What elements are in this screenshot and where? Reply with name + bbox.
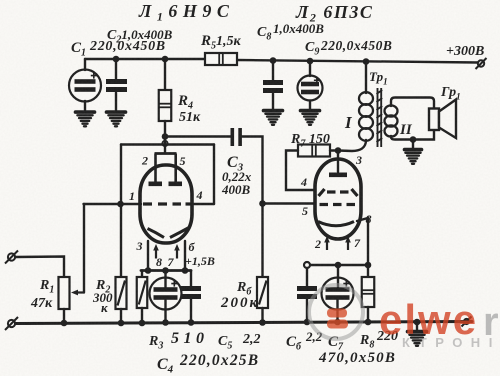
- ground below Tr1 secondary: [405, 150, 422, 164]
- node V2 grid junction: [259, 200, 266, 207]
- wire R2 bottom lead: [120, 309, 122, 323]
- wire C9 top lead: [309, 61, 311, 76]
- wire C1 bottom lead: [84, 101, 86, 111]
- node cathode bus left tie: [304, 262, 310, 268]
- ground chassis on bottom rail: [408, 332, 427, 346]
- resistor R5 1.5k: [205, 53, 237, 65]
- wire C9 bottom lead: [309, 101, 311, 110]
- wire C4 bottom lead: [164, 300, 166, 323]
- node rail-C7: [334, 319, 341, 326]
- speaker Gr1: [429, 100, 456, 139]
- ground below C1: [76, 112, 95, 126]
- resistor R4 51k: [159, 90, 172, 121]
- wire wire C3 to V2 grid node: [242, 137, 263, 204]
- wire R4 top lead: [164, 59, 166, 90]
- V2 control grid dashes pin5: [320, 203, 356, 206]
- node rail-C6: [304, 319, 311, 326]
- wire V1 pin4 wire: [192, 203, 214, 205]
- wire V1 grid tie box right: [213, 145, 215, 205]
- wire Tr1 primary bottom to V2 anode: [338, 140, 366, 151]
- wire Tr1 secondary top to speaker: [391, 98, 434, 110]
- resistor R3 510: [137, 277, 148, 308]
- V1 heater stubs pins 8,7: [153, 244, 180, 259]
- wire secondary ground lead: [412, 140, 414, 149]
- V2 screen grid dashes pin4: [319, 189, 358, 196]
- node bus-R8: [365, 262, 372, 269]
- node rail-C4: [162, 319, 169, 326]
- wire R7 to V2 pin4 screen wire: [286, 151, 315, 191]
- wire C5 top lead: [190, 271, 192, 287]
- wire V1 pin6 cathode lead: [184, 241, 186, 270]
- V1 grid dashes pins 1,4: [143, 202, 191, 205]
- resistor R1 47k: [59, 277, 70, 309]
- wire R6 top lead: [261, 204, 263, 278]
- node rail-R2: [118, 320, 125, 327]
- wire V1 pin1 grid wire: [84, 203, 142, 205]
- node rail-R6: [259, 319, 266, 326]
- wire bottom ground rail: [16, 322, 473, 324]
- node bus-C4: [162, 267, 169, 274]
- terminal +300V output: [476, 58, 487, 69]
- resistor R7 150: [298, 145, 330, 157]
- wire C8 top lead: [272, 61, 274, 81]
- wire C1 top lead: [84, 59, 86, 70]
- wire R8 bottom lead: [367, 307, 369, 322]
- capacitor C2: [106, 79, 127, 92]
- node rail-ground: [414, 319, 421, 326]
- node rail-R4: [162, 56, 169, 63]
- wire chassis ground lead: [416, 322, 418, 330]
- V1 anode structure pins 2,5: [149, 145, 183, 186]
- capacitor C3: [231, 128, 242, 146]
- wire R6 bottom lead: [261, 308, 263, 322]
- terminal output right: [462, 317, 472, 327]
- capacitor C4 (electrolytic): [150, 278, 182, 310]
- wire input wire to R1: [16, 257, 65, 278]
- V1 cathode arcs pins 3,6: [148, 228, 190, 238]
- wire C6 top lead: [306, 268, 308, 286]
- terminal input hot: [5, 251, 18, 264]
- V2 cathode arc pin8: [318, 222, 354, 226]
- node V1 anode top tie: [162, 141, 167, 146]
- wire V1 grid tie box top: [121, 143, 214, 145]
- capacitor C5: [181, 286, 201, 299]
- capacitor C1 (electrolytic): [69, 70, 101, 102]
- wire R8 top lead: [367, 265, 369, 277]
- wire V1 cathode bus: [141, 269, 191, 272]
- wire C4 top lead: [164, 271, 166, 288]
- wire V1 pin3 cathode lead: [147, 241, 149, 270]
- node V2 anode junction: [335, 147, 342, 154]
- node bus-pin3: [145, 267, 152, 274]
- wire V2 pin8 cathode wire: [357, 218, 368, 265]
- wire C6 bottom lead: [306, 299, 308, 322]
- wire wire V1 anode to C3: [165, 135, 231, 137]
- resistor R6 200k: [257, 277, 268, 308]
- node rail-Tr1: [363, 58, 370, 65]
- node bus-C7: [335, 262, 342, 269]
- decorative watermark (not part of circuit): [309, 285, 500, 350]
- wire V2 cathode bus: [310, 264, 368, 267]
- capacitor C7 (electrolytic): [322, 278, 354, 310]
- node bus-pin6: [182, 267, 189, 274]
- node rail-C9: [307, 58, 314, 65]
- node rail-C2: [113, 56, 120, 63]
- wire C7 bottom lead: [336, 300, 338, 322]
- V2 anode plate: [329, 173, 347, 178]
- wire V2 pin3 anode lead: [337, 151, 339, 173]
- capacitor C8: [263, 80, 283, 93]
- resistor R8 220: [362, 277, 375, 307]
- ground below C8: [264, 111, 283, 125]
- node rail-R3: [139, 320, 146, 327]
- node rail-C8: [270, 57, 277, 64]
- ground below C9: [301, 111, 320, 125]
- wire C5 bottom lead: [190, 299, 192, 323]
- wire C7 top lead: [337, 265, 339, 287]
- wire Tr1 secondary bottom to speaker: [391, 130, 434, 140]
- capacitor C6: [297, 286, 317, 299]
- wire V1 grid tie box left / R2 lead: [120, 145, 122, 278]
- wire V2 pin5 grid wire: [263, 202, 316, 204]
- node rail-C5: [188, 319, 195, 326]
- node secondary ground tap: [410, 136, 417, 143]
- wire R7 right lead: [330, 149, 338, 151]
- node V1 grid junction: [117, 201, 124, 208]
- wire top +300V rail right segment: [236, 60, 478, 63]
- wire R1 bottom lead: [63, 309, 65, 323]
- wire R3 top lead: [141, 271, 143, 278]
- V2 heater stubs pins 2,7: [324, 236, 351, 250]
- capacitor C9 (electrolytic): [298, 76, 323, 101]
- wire C2 top lead: [115, 59, 117, 79]
- wire Tr1 primary top lead: [365, 62, 367, 94]
- wire C2 bottom lead: [115, 93, 117, 111]
- transformer Tr1 secondary winding II: [385, 105, 398, 136]
- R1 wiper arrow: [71, 290, 84, 296]
- transformer Tr1 primary winding I: [359, 92, 373, 141]
- node R4-C3 junction: [162, 133, 169, 140]
- node rail-R1: [61, 320, 68, 327]
- wire C8 bottom lead: [272, 94, 274, 110]
- tube V2 envelope: [315, 159, 361, 239]
- terminal input ground: [5, 317, 18, 330]
- wire top +300V rail left segment: [85, 58, 206, 60]
- resistor R2 300k: [116, 277, 127, 309]
- ground below C2: [107, 112, 126, 126]
- wire R3 bottom lead: [141, 308, 143, 323]
- node rail-R8: [365, 319, 372, 326]
- transformer Tr1 core: [377, 88, 383, 147]
- tube V1 envelope: [140, 165, 192, 243]
- wire R4 bottom lead to V1 anode: [164, 121, 166, 145]
- wire R1 wiper wire up: [83, 204, 85, 293]
